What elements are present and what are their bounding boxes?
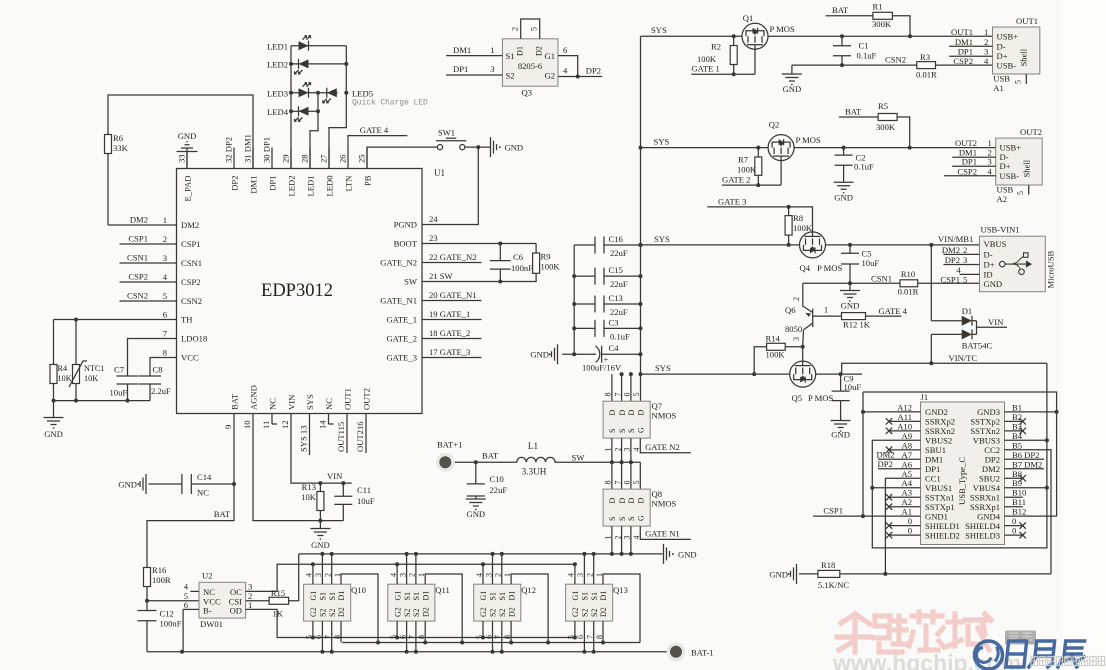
svg-text:DM1: DM1 <box>955 37 973 47</box>
wire B4 VBUS3 <box>1005 439 1047 441</box>
wire OUT2 <box>794 147 996 149</box>
transistor Q7 NMOS <box>603 401 650 438</box>
svg-text:DP2: DP2 <box>878 459 893 469</box>
svg-text:100nF: 100nF <box>511 263 533 273</box>
svg-text:G1: G1 <box>393 591 402 601</box>
wire R2 top <box>733 36 735 45</box>
wire Q6 emitter <box>802 330 805 347</box>
svg-text:33K: 33K <box>113 143 129 153</box>
wire LDO18 <box>128 339 177 377</box>
ground at C10 <box>466 499 486 510</box>
wire CC net <box>840 573 1051 575</box>
svg-text:30 DP1: 30 DP1 <box>262 137 272 163</box>
wire C14 gnd side <box>149 483 182 485</box>
wire net DM2 <box>943 253 979 255</box>
wire NTC top <box>75 320 77 365</box>
svg-text:LED5: LED5 <box>352 89 373 99</box>
svg-text:SYS: SYS <box>654 234 670 244</box>
ground at C4 <box>552 344 558 364</box>
svg-text:U1: U1 <box>434 168 445 178</box>
wire CSN1 <box>803 282 900 284</box>
wire pin6 <box>558 56 578 77</box>
wire net DM1 <box>949 45 992 47</box>
wire R13 top <box>319 483 321 491</box>
svg-text:3: 3 <box>988 157 992 167</box>
resistor R2 <box>730 46 737 65</box>
svg-text:NC: NC <box>203 587 215 597</box>
wire R7 bottom <box>757 175 759 185</box>
svg-text:G1: G1 <box>544 51 555 61</box>
svg-text:SYS: SYS <box>651 25 667 35</box>
wire Q10 pin1 D1 bracket <box>341 574 378 643</box>
resistor R18 <box>818 570 840 577</box>
resistor R4 <box>50 365 57 384</box>
svg-text:R4: R4 <box>58 364 68 373</box>
svg-text:100K: 100K <box>541 262 561 272</box>
wire C11 bottom <box>342 504 344 520</box>
wire q5 gate <box>802 347 804 366</box>
svg-text:31 DM1: 31 DM1 <box>243 134 253 163</box>
svg-text:3: 3 <box>163 253 167 263</box>
svg-text:DM2: DM2 <box>181 220 199 230</box>
wire TH <box>54 319 177 321</box>
wire LED2 rail <box>290 46 292 169</box>
svg-text:OUT1: OUT1 <box>343 388 353 410</box>
svg-text:Q2: Q2 <box>769 120 780 130</box>
svg-text:OD: OD <box>230 606 242 616</box>
svg-text:32 DP2: 32 DP2 <box>224 137 234 163</box>
resistor R8 <box>785 216 792 236</box>
svg-text:14: 14 <box>318 420 328 429</box>
wire Q10 pin2 S1 <box>331 554 333 584</box>
svg-text:S1: S1 <box>319 592 328 600</box>
wire <box>146 587 148 601</box>
wire gnd left rail <box>862 392 864 516</box>
svg-text:28: 28 <box>300 154 310 163</box>
svg-text:D2: D2 <box>507 607 516 617</box>
wire GATE_N1 <box>640 526 691 539</box>
svg-text:10uF: 10uF <box>357 496 375 506</box>
svg-text:C3: C3 <box>609 317 619 327</box>
watermark blue logo circle <box>975 641 1003 669</box>
wire DP2 <box>558 76 602 78</box>
svg-text:BAT: BAT <box>482 451 499 461</box>
resistor R5 <box>878 114 897 121</box>
transistor Q4 <box>800 232 826 258</box>
wire to gnd <box>53 401 55 418</box>
svg-text:R2: R2 <box>711 42 721 52</box>
wire SYS to Q1 <box>641 35 743 37</box>
svg-text:2: 2 <box>963 245 967 255</box>
wire pin 28 stub <box>309 148 311 169</box>
svg-text:10: 10 <box>242 420 252 429</box>
svg-text:G2: G2 <box>479 607 488 617</box>
terminal BAT-1 <box>667 642 686 661</box>
svg-text:CSN1: CSN1 <box>181 258 202 268</box>
svg-text:Q4: Q4 <box>800 263 811 273</box>
wire net CSN2 pin 5 <box>120 300 177 302</box>
wire R4 bottom <box>53 384 55 401</box>
svg-text:P MOS: P MOS <box>770 24 795 34</box>
svg-text:S1: S1 <box>498 592 507 600</box>
wire C11 top <box>342 483 344 496</box>
svg-text:22uF: 22uF <box>610 248 628 258</box>
wire Q10 pin4 G1 <box>312 564 314 584</box>
wire base <box>813 315 842 317</box>
wire GATE_N2 <box>640 438 691 453</box>
svg-text:C8: C8 <box>153 365 163 375</box>
svg-text:3.3UH: 3.3UH <box>522 467 547 477</box>
svg-text:100K: 100K <box>697 54 717 64</box>
svg-text:LED4: LED4 <box>267 107 289 117</box>
wire pin9 <box>233 414 235 485</box>
svg-text:G1: G1 <box>479 591 488 601</box>
svg-text:D+: D+ <box>1000 161 1011 171</box>
wire DM2 route <box>107 154 109 226</box>
wire J1 stub B2 <box>1005 420 1023 422</box>
svg-text:S2: S2 <box>328 609 337 617</box>
svg-text:GND: GND <box>769 569 788 579</box>
svg-text:D1: D1 <box>962 306 973 316</box>
svg-text:GATE_N2: GATE_N2 <box>380 258 417 268</box>
svg-text:SYS: SYS <box>655 363 671 373</box>
capacitor C8 <box>139 376 161 384</box>
svg-text:3: 3 <box>490 64 494 74</box>
transistor Q2 <box>768 135 794 161</box>
svg-text:USB+: USB+ <box>1000 142 1022 152</box>
wire pin6 <box>183 608 199 610</box>
svg-text:1: 1 <box>490 45 494 55</box>
wire vbus to d1 <box>930 245 932 321</box>
wire sw1 gnd <box>465 146 491 148</box>
svg-text:5: 5 <box>530 27 539 31</box>
wire <box>604 244 641 246</box>
capacitor C10 <box>467 484 485 496</box>
svg-text:S1: S1 <box>581 592 590 600</box>
svg-text:SHIELD3: SHIELD3 <box>965 530 1000 540</box>
svg-text:BAT54C: BAT54C <box>962 341 993 351</box>
wire C9 bottom <box>840 401 842 421</box>
transistor Q3 8205-6 <box>502 39 558 86</box>
svg-text:8205-6: 8205-6 <box>518 61 543 71</box>
svg-text:GATE_1: GATE_1 <box>386 315 417 325</box>
svg-text:S2: S2 <box>319 609 328 617</box>
svg-text:DM2: DM2 <box>942 245 960 255</box>
LED LED5 <box>327 88 337 97</box>
svg-text:GND: GND <box>831 430 850 440</box>
svg-text:PB: PB <box>363 175 373 186</box>
svg-text:23: 23 <box>429 233 438 243</box>
svg-text:GATE_2: GATE_2 <box>386 334 417 344</box>
wire CC1 down <box>884 478 886 574</box>
wire OUT1 <box>768 35 993 37</box>
capacitor C1 <box>833 46 851 56</box>
svg-text:D2: D2 <box>337 607 346 617</box>
svg-text:5: 5 <box>963 275 967 285</box>
svg-text:D: D <box>618 410 627 416</box>
svg-text:4: 4 <box>163 272 168 282</box>
wire DM1 route <box>108 95 253 169</box>
wire Q12 pin7 S2 <box>501 621 503 652</box>
wire C4 left <box>562 353 596 355</box>
wire LED3 row <box>291 92 338 94</box>
svg-text:100nF: 100nF <box>160 619 182 629</box>
svg-text:S2: S2 <box>506 71 515 81</box>
svg-text:SYS 13: SYS 13 <box>299 425 309 452</box>
wire q8 p5 <box>639 462 641 489</box>
svg-text:SYS: SYS <box>305 394 315 410</box>
wire Q13 pin6 S2 <box>583 621 585 652</box>
svg-text:GND: GND <box>44 429 63 439</box>
svg-text:NTC1: NTC1 <box>84 364 104 373</box>
svg-text:D1: D1 <box>337 591 346 601</box>
resistor R15 <box>269 597 289 604</box>
svg-text:OUT2: OUT2 <box>362 388 372 410</box>
svg-text:8: 8 <box>604 481 613 485</box>
svg-text:5: 5 <box>632 393 641 397</box>
svg-text:0.01R: 0.01R <box>898 287 919 297</box>
svg-text:GND: GND <box>841 301 860 311</box>
svg-text:G: G <box>637 427 646 433</box>
svg-text:C1: C1 <box>859 41 869 51</box>
wire SYS to Q5 <box>641 373 790 375</box>
connector J1 USB_Type_C <box>921 402 1005 545</box>
svg-text:DP2: DP2 <box>586 66 601 76</box>
wire net CSP2 <box>944 175 996 177</box>
wire gnd to R18 <box>799 573 818 575</box>
wire Q10 pin7 S2 <box>331 621 333 652</box>
wire pin4 <box>190 590 199 592</box>
wire pin 32 stub <box>233 148 235 169</box>
wire q8 s <box>630 526 632 554</box>
wire q7 s <box>621 438 623 462</box>
wire J1 stub B10 <box>1005 496 1023 498</box>
wire C14 to pin9 <box>191 483 234 485</box>
svg-text:25: 25 <box>357 154 367 163</box>
svg-text:G2: G2 <box>571 607 580 617</box>
LED LED4 <box>299 107 309 116</box>
wire net OUT2 pin 16 stub <box>365 414 367 454</box>
wire pin 30 stub <box>271 148 273 169</box>
svg-text:SYS: SYS <box>654 137 670 147</box>
svg-text:SW: SW <box>404 277 418 287</box>
svg-text:C14: C14 <box>197 472 212 482</box>
svg-text:D2: D2 <box>421 607 430 617</box>
svg-text:Shell: Shell <box>1022 159 1032 177</box>
wire R14 left <box>754 347 766 374</box>
watermark blue CJK 日月辰 (vector approximation) <box>1006 641 1086 667</box>
svg-text:22 GATE_N2: 22 GATE_N2 <box>429 252 477 262</box>
svg-text:6: 6 <box>184 600 189 610</box>
svg-text:G2: G2 <box>544 71 555 81</box>
wire R13 bottom <box>319 511 321 521</box>
svg-text:S1: S1 <box>489 592 498 600</box>
svg-text:S2: S2 <box>498 609 507 617</box>
wire pin 33 stub <box>186 148 188 169</box>
svg-text:U2: U2 <box>202 571 213 581</box>
ground at C14 <box>140 474 146 494</box>
wire C6 bottom <box>499 269 501 281</box>
wire agnd rail <box>320 520 343 522</box>
wire J1 stub B3 <box>1005 430 1023 432</box>
wire Q13 pin1 D1 bracket <box>603 574 640 643</box>
svg-text:CSP1: CSP1 <box>181 239 201 249</box>
svg-text:0: 0 <box>908 526 912 536</box>
svg-text:GND: GND <box>466 509 485 519</box>
svg-text:5: 5 <box>163 291 167 301</box>
svg-text:CSP1: CSP1 <box>823 506 843 516</box>
wire R9 top <box>535 244 537 254</box>
svg-text:GND: GND <box>530 350 549 360</box>
svg-text:4: 4 <box>563 66 568 76</box>
svg-text:LED0: LED0 <box>325 176 335 197</box>
svg-text:R8: R8 <box>793 213 803 223</box>
wire cap left rail <box>573 245 575 354</box>
wire cathode tie <box>976 321 978 335</box>
svg-text:C5: C5 <box>862 249 872 259</box>
svg-text:C6: C6 <box>513 252 524 262</box>
wire CSP1 <box>813 515 921 517</box>
terminal BAT+1 <box>436 453 455 472</box>
wire <box>604 303 641 305</box>
wire net DM2 stub <box>878 458 921 460</box>
svg-text:GATE 4: GATE 4 <box>360 125 389 135</box>
wire Q13 pin2 S1 <box>593 554 595 584</box>
wire C2 top <box>843 148 845 156</box>
svg-text:S1: S1 <box>590 592 599 600</box>
transistor Q11 dual NMOS pack <box>388 584 435 621</box>
wire PB <box>367 147 438 168</box>
svg-text:GND: GND <box>984 279 1003 289</box>
svg-text:R7: R7 <box>738 155 749 165</box>
resistor R9 <box>533 253 540 273</box>
wire net CSP1 pin 2 <box>120 243 177 245</box>
ground at C1 <box>782 74 802 85</box>
svg-text:100K: 100K <box>737 165 757 175</box>
svg-text:G2: G2 <box>309 607 318 617</box>
wire d1 anode2 <box>931 333 961 335</box>
wire net DP2 stub <box>878 468 921 470</box>
svg-text:CSN1: CSN1 <box>127 253 148 263</box>
wire net DP2 stub B6 <box>1005 458 1045 460</box>
svg-text:0.1uF: 0.1uF <box>610 331 630 341</box>
svg-text:S: S <box>618 517 627 521</box>
svg-text:0.1uF: 0.1uF <box>854 162 874 172</box>
transistor Q10 dual NMOS pack <box>304 584 351 621</box>
svg-text:G1: G1 <box>309 591 318 601</box>
wire Q10 pin8 D2 <box>340 621 342 642</box>
ground at C9 <box>831 421 851 432</box>
svg-text:2: 2 <box>511 27 520 31</box>
wire J1 stub 0 <box>1005 534 1023 536</box>
svg-text:5: 5 <box>1014 80 1023 84</box>
wire net GATE_2 stub <box>422 338 482 340</box>
wire net GATE_N1 stub <box>422 300 482 302</box>
wire LED1 row <box>291 45 346 47</box>
wire q8 s <box>611 526 613 554</box>
wire net DP1 <box>952 165 995 167</box>
svg-text:D1: D1 <box>599 591 608 601</box>
wire C6 top <box>499 244 501 261</box>
svg-text:S: S <box>618 429 627 433</box>
wire Q12 pin3 S1 <box>492 554 494 584</box>
svg-text:VIN: VIN <box>327 471 343 481</box>
svg-text:10uF: 10uF <box>862 258 880 268</box>
svg-text:GATE 4: GATE 4 <box>879 306 908 316</box>
svg-text:D: D <box>618 498 627 504</box>
svg-text:CSP1: CSP1 <box>128 234 148 244</box>
svg-text:BOOT: BOOT <box>394 239 418 249</box>
svg-text:21 SW: 21 SW <box>429 271 454 281</box>
svg-text:S2: S2 <box>581 609 590 617</box>
svg-text:Quick Charge LED: Quick Charge LED <box>352 99 428 108</box>
svg-text:CSP1: CSP1 <box>940 275 960 285</box>
svg-text:Shell: Shell <box>1019 48 1029 66</box>
svg-text:OUT216: OUT216 <box>355 421 365 452</box>
wire shell <box>1028 185 1030 195</box>
svg-text:18 GATE_2: 18 GATE_2 <box>429 328 470 338</box>
capacitor C7 <box>117 376 139 384</box>
svg-text:Q1: Q1 <box>743 13 754 23</box>
svg-text:0.1uF: 0.1uF <box>857 51 877 61</box>
svg-text:3: 3 <box>792 337 801 341</box>
wire VCC <box>150 358 177 377</box>
svg-text:USB: USB <box>993 74 1010 84</box>
svg-text:3: 3 <box>248 582 252 592</box>
wire R1 to OUT1 <box>892 16 910 36</box>
svg-text:DP1: DP1 <box>268 176 278 191</box>
svg-text:OUT1: OUT1 <box>1016 16 1038 26</box>
svg-text:VCC: VCC <box>181 353 199 363</box>
wire J1 stub 0 <box>889 525 921 527</box>
svg-text:SHIELD2: SHIELD2 <box>925 530 960 540</box>
svg-text:TH: TH <box>181 315 192 325</box>
ground at C2 <box>834 182 854 193</box>
svg-text:S: S <box>627 429 636 433</box>
svg-text:D1: D1 <box>516 46 525 56</box>
svg-text:Q3: Q3 <box>522 88 533 98</box>
wire ID stub <box>960 273 980 275</box>
wire oc rail <box>313 563 575 565</box>
wire net OUT1 pin 15 stub <box>346 414 348 454</box>
svg-text:G: G <box>637 515 646 521</box>
wire Q12 pin4 G1 <box>482 564 484 584</box>
svg-text:C16: C16 <box>609 234 624 244</box>
svg-text:S2: S2 <box>590 609 599 617</box>
svg-text:SW1: SW1 <box>438 128 455 138</box>
svg-text:CSN1: CSN1 <box>871 274 892 284</box>
svg-text:GND: GND <box>118 480 137 490</box>
wire B1 GND3 <box>1005 411 1057 413</box>
LED LED2 <box>299 59 309 68</box>
svg-text:12: 12 <box>280 420 290 429</box>
svg-text:OUT2: OUT2 <box>955 138 977 148</box>
svg-text:D1: D1 <box>421 591 430 601</box>
svg-text:R6: R6 <box>113 133 124 143</box>
svg-text:USB+: USB+ <box>997 31 1019 41</box>
svg-text:2: 2 <box>792 297 801 301</box>
wire Q6 collector <box>802 283 804 307</box>
wire net GATE_3 stub <box>422 357 482 359</box>
op-amp U1 EDP3012 main IC <box>177 169 423 414</box>
wire GATE_1 <box>691 73 755 75</box>
wire VBUS row <box>826 244 980 246</box>
resistor R10 <box>900 280 918 287</box>
wire R3 to CSP2 <box>936 64 993 66</box>
wire C12 bottom <box>146 621 148 652</box>
wire R2 bottom <box>733 65 735 75</box>
svg-text:EDP3012: EDP3012 <box>261 281 333 301</box>
